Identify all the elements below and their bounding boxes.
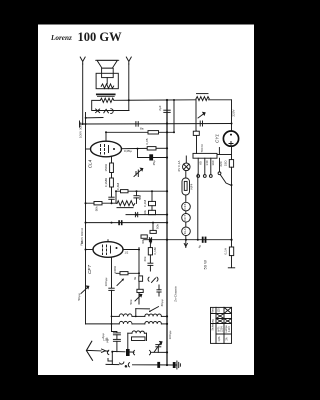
svg-text:220V: 220V <box>232 108 236 116</box>
svg-text:20k: 20k <box>143 256 147 261</box>
svg-text:100μμ: 100μμ <box>168 330 172 339</box>
svg-text:1,5m: 1,5m <box>103 338 109 342</box>
svg-text:220: 220 <box>219 161 223 166</box>
svg-text:50k: 50k <box>138 195 142 200</box>
svg-text:100μμ: 100μμ <box>104 277 108 286</box>
svg-text:0,1M: 0,1M <box>153 247 157 254</box>
svg-text:3k: 3k <box>133 276 137 280</box>
svg-text:2A: 2A <box>226 337 229 340</box>
svg-text:4μ: 4μ <box>197 245 201 249</box>
svg-text:25μ: 25μ <box>152 160 156 165</box>
svg-text:1/2: 1/2 <box>125 251 129 255</box>
svg-text:Netz: Netz <box>211 307 214 313</box>
svg-text:30μμ: 30μμ <box>160 299 164 306</box>
svg-text:220V: 220V <box>221 326 224 332</box>
svg-text:a: a <box>125 364 127 368</box>
svg-text:0,1MΩ: 0,1MΩ <box>104 177 108 187</box>
svg-text:8a: 8a <box>140 127 144 131</box>
svg-text:CY1: CY1 <box>215 134 220 143</box>
svg-text:Sicherung: Sicherung <box>211 319 214 331</box>
svg-text:Zn-Chassis: Zn-Chassis <box>174 286 178 302</box>
svg-text:0,1A: 0,1A <box>224 247 228 254</box>
svg-text:CF7: CF7 <box>183 215 187 221</box>
svg-text:50k: 50k <box>143 210 147 215</box>
svg-text:0,05: 0,05 <box>145 138 149 144</box>
svg-text:1,8A: 1,8A <box>218 336 221 341</box>
svg-text:50 W: 50 W <box>203 260 208 270</box>
svg-text:CF7: CF7 <box>87 265 93 274</box>
svg-text:160: 160 <box>211 160 215 165</box>
svg-text:CL4: CL4 <box>88 159 93 168</box>
svg-text:130Ω: 130Ω <box>113 265 117 273</box>
svg-text:700 Ω: 700 Ω <box>200 144 204 153</box>
svg-text:CF3: CF3 <box>183 203 187 209</box>
svg-text:CL4: CL4 <box>183 228 187 234</box>
svg-text:125: 125 <box>218 308 221 313</box>
svg-text:150Ω: 150Ω <box>104 163 108 171</box>
svg-text:65: 65 <box>199 161 203 165</box>
svg-text:140: 140 <box>205 160 209 165</box>
svg-text:100 GW: 100 GW <box>78 30 123 44</box>
svg-text:50μμ: 50μμ <box>77 293 81 300</box>
svg-text:15Ω: 15Ω <box>223 160 227 166</box>
svg-text:50k: 50k <box>129 299 133 304</box>
svg-text:0,1M: 0,1M <box>143 200 147 207</box>
svg-text:Lorenz: Lorenz <box>50 34 72 42</box>
svg-text:50k: 50k <box>95 206 99 211</box>
svg-text:6V 0,1A: 6V 0,1A <box>177 160 181 172</box>
svg-text:50k: 50k <box>156 224 160 229</box>
svg-text:NF4: NF4 <box>190 183 194 189</box>
svg-text:110V: 110V <box>228 326 231 332</box>
svg-text:Rg: Rg <box>80 241 84 245</box>
svg-text:2μF: 2μF <box>158 105 162 111</box>
svg-text:0,3M: 0,3M <box>116 183 120 190</box>
svg-text:0,05μ: 0,05μ <box>124 149 132 153</box>
